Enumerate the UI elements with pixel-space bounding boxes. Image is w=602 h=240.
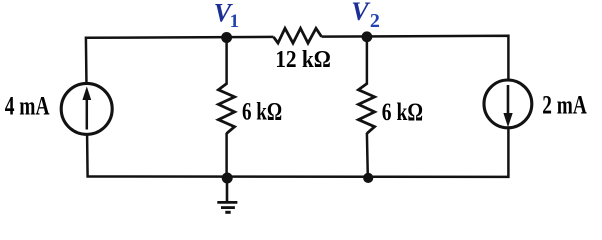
svg-text:6 kΩ: 6 kΩ <box>382 99 423 126</box>
svg-text:2 mA: 2 mA <box>542 91 587 120</box>
svg-text:V: V <box>351 0 371 26</box>
svg-text:12 kΩ: 12 kΩ <box>275 47 331 73</box>
svg-text:1: 1 <box>230 11 240 32</box>
svg-text:6 kΩ: 6 kΩ <box>242 99 282 126</box>
svg-text:4 mA: 4 mA <box>5 92 50 121</box>
svg-text:2: 2 <box>370 10 380 32</box>
